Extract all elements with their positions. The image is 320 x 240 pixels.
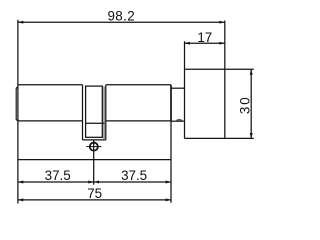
svg-text:17: 17 (197, 30, 212, 45)
svg-text:37.5: 37.5 (45, 168, 71, 183)
svg-text:98.2: 98.2 (107, 9, 135, 24)
svg-text:37.5: 37.5 (121, 168, 147, 183)
svg-text:30: 30 (237, 95, 252, 114)
svg-text:75: 75 (87, 186, 102, 201)
